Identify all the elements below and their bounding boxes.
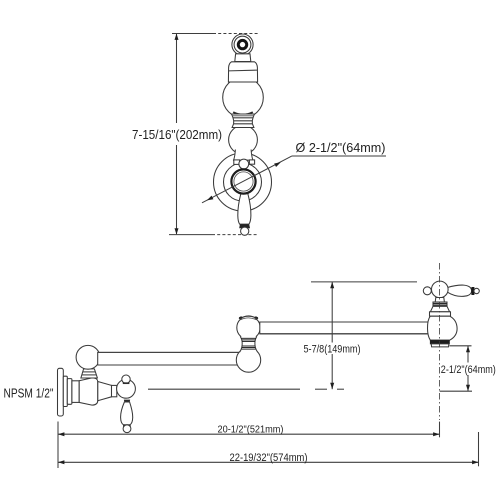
- dim 7-15/16 vertical dimension line: [176, 34, 178, 123]
- valve cone to stem: [98, 382, 112, 401]
- spout ring 2: [430, 312, 451, 316]
- collar ridge lines: [233, 117, 253, 119]
- dim 5-7/8 bottom reference line: [148, 388, 300, 390]
- elbow upper ball: [237, 316, 260, 339]
- valve neck left wing: [234, 160, 240, 165]
- spout centerline: [439, 263, 441, 420]
- dim 22-19/32 line: [58, 461, 479, 463]
- svg-text:20-1/2"(521mm): 20-1/2"(521mm): [218, 425, 284, 436]
- top swivel ring inner rim: [234, 36, 251, 53]
- valve ring dark: [231, 169, 255, 193]
- valve stem cylinder: [112, 385, 117, 396]
- spout outlet flange dark: [430, 340, 449, 344]
- elbow waist ridges lower band: [242, 345, 255, 347]
- neck below ring: [235, 54, 251, 62]
- handle end ball (front): [241, 227, 249, 235]
- dim 5-7/8 top extension line: [311, 281, 417, 283]
- spout lever left ball: [423, 287, 431, 295]
- right extension line for 22-19/32: [478, 432, 480, 466]
- svg-text:5-7/8(149mm): 5-7/8(149mm): [304, 343, 361, 355]
- svg-text:2-1/2"(64mm): 2-1/2"(64mm): [441, 364, 496, 376]
- valve body small section: [72, 381, 79, 403]
- bell seam: [229, 69, 258, 72]
- svg-text:Ø 2-1/2"(64mm): Ø 2-1/2"(64mm): [296, 141, 386, 155]
- svg-text:NPSM 1/2": NPSM 1/2": [4, 387, 54, 401]
- diameter arrow upper-right: [274, 161, 282, 168]
- elbow waist: [240, 337, 258, 353]
- wall handle neck shade: [124, 400, 130, 402]
- wall handle end ball: [123, 425, 131, 433]
- elbow upper ball cap arcs: [239, 316, 258, 318]
- diameter leader underline: [292, 155, 387, 157]
- flange disc 2: [67, 379, 72, 405]
- spout body bulb: [427, 316, 457, 340]
- wall plate: [58, 368, 64, 416]
- sphere bottom shade band: [233, 112, 253, 114]
- riser swivel sphere: [76, 345, 100, 369]
- dim 7-15/16 top extension line: [172, 33, 213, 35]
- dim 2-1/2 bottom extension line: [440, 390, 472, 392]
- lower sphere: [229, 125, 258, 154]
- right extension line for 20-1/2: [439, 422, 441, 438]
- handle teardrop (front): [238, 194, 251, 225]
- wall handle top ball seat shade: [123, 382, 130, 384]
- upper body sphere: [223, 77, 264, 118]
- dim 5-7/8 vertical line: [331, 282, 333, 343]
- spout ring 1: [433, 302, 447, 306]
- small ball on valve: [239, 159, 249, 169]
- riser neck with rings: [81, 369, 98, 378]
- left extension line for bottom dims: [57, 422, 59, 469]
- dim 2-1/2 vertical line: [467, 346, 469, 363]
- valve main body: [79, 378, 98, 405]
- spout stem below hub: [435, 298, 444, 303]
- wall handle top ball: [122, 375, 130, 383]
- valve neck trapezoid: [234, 150, 253, 161]
- svg-text:7-15/16"(202mm): 7-15/16"(202mm): [132, 127, 222, 142]
- elbow waist ridges upper band: [241, 337, 256, 339]
- diameter dimension diagonal line: [202, 156, 292, 203]
- diameter arrow lower-left: [206, 196, 214, 203]
- spout bonnet: [430, 306, 449, 312]
- dim 20-1/2 line: [58, 433, 440, 435]
- top swivel ring dark donut: [237, 39, 248, 50]
- elbow upper ball cap flatten: [237, 311, 259, 319]
- escutcheon inner circle: [224, 163, 262, 201]
- spout lever right teardrop: [447, 285, 472, 296]
- escutcheon outer circle: [214, 153, 272, 211]
- collar stack between spheres: [232, 114, 255, 128]
- top swivel ring outer: [232, 34, 253, 55]
- dim 7-15/16 bottom extension line: [169, 234, 212, 236]
- spout outlet lip: [431, 344, 449, 347]
- wall handle collar dark: [123, 425, 131, 427]
- dim 2-1/2 top extension line: [450, 345, 472, 347]
- bell upper body: [228, 62, 257, 82]
- spout lever hub ball: [432, 281, 449, 298]
- handle collar dark (front): [239, 224, 250, 228]
- wall handle teardrop: [121, 402, 133, 425]
- spout lever tip ball: [474, 288, 479, 293]
- svg-text:22-19/32"(574mm): 22-19/32"(574mm): [230, 452, 308, 464]
- elbow lower ball: [236, 348, 260, 372]
- spout lever black band: [471, 287, 474, 295]
- arm tube 2: [260, 322, 429, 334]
- valve housing circle: [234, 172, 253, 191]
- valve neck right wing: [249, 160, 254, 164]
- arm tube 1: [98, 352, 239, 365]
- flange disc 1: [63, 376, 67, 406]
- wall valve handle ball: [117, 379, 136, 398]
